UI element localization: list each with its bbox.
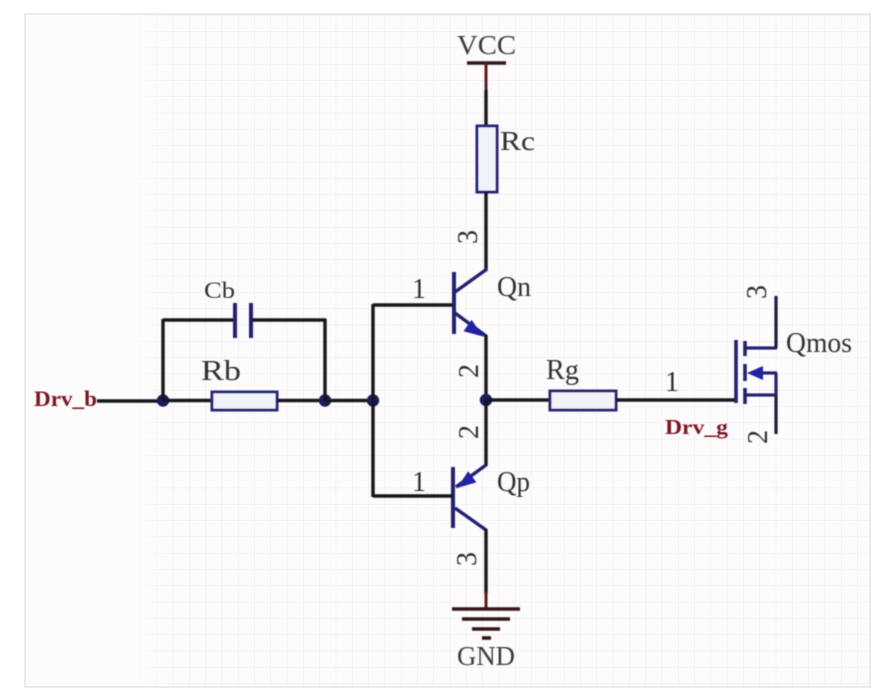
- svg-text:1: 1: [412, 467, 426, 498]
- wire Qp base: [373, 494, 453, 497]
- node D junction (emitters / Rg): [480, 394, 492, 406]
- wire cap branch left vertical: [161, 319, 164, 401]
- transistor Qp (PNP): [453, 465, 486, 530]
- wire Qn base: [373, 303, 453, 306]
- svg-text:Qmos: Qmos: [786, 328, 852, 359]
- wire GND stub (maroon): [485, 592, 488, 610]
- svg-text:2: 2: [743, 430, 774, 444]
- wire Qp collector to GND: [484, 529, 487, 594]
- wire Qn emitter to node: [484, 335, 487, 401]
- wire node to Rg: [486, 398, 551, 401]
- wire node B to node C: [325, 399, 373, 402]
- resistor Rc: [477, 126, 497, 192]
- svg-text:1: 1: [412, 274, 426, 305]
- wire base rail: [371, 304, 374, 497]
- node A junction: [157, 394, 169, 406]
- svg-text:1: 1: [665, 367, 679, 398]
- svg-text:2: 2: [454, 364, 485, 378]
- wire VCC stub (maroon): [485, 63, 488, 92]
- svg-text:3: 3: [742, 285, 773, 299]
- ground GND symbol: [452, 609, 520, 638]
- resistor Rb: [212, 392, 277, 410]
- resistor Rg: [550, 391, 616, 410]
- wire VCC to Rc: [484, 90, 487, 127]
- node B junction: [319, 394, 331, 406]
- wire cap branch right horizontal: [252, 318, 326, 321]
- svg-text:3: 3: [453, 230, 484, 244]
- svg-text:Rc: Rc: [500, 126, 535, 156]
- wire node to Qp emitter: [484, 400, 487, 466]
- svg-text:Qn: Qn: [497, 272, 531, 303]
- svg-text:2: 2: [454, 425, 485, 439]
- wire Rb to node B: [277, 399, 325, 402]
- svg-text:VCC: VCC: [457, 30, 516, 60]
- transistor Qmos (NMOS): [736, 296, 777, 434]
- svg-text:Cb: Cb: [204, 278, 235, 303]
- power symbol VCC bar: [467, 61, 506, 64]
- svg-text:3: 3: [452, 552, 483, 566]
- svg-text:Drv_b: Drv_b: [34, 386, 97, 411]
- capacitor Cb: [235, 303, 251, 338]
- svg-text:Drv_g: Drv_g: [665, 415, 729, 439]
- svg-text:Rg: Rg: [546, 355, 579, 386]
- transistor Qn (NPN): [454, 269, 487, 337]
- wire Rg to gate: [616, 398, 736, 401]
- wire cap branch left horizontal: [163, 318, 234, 321]
- svg-text:Rb: Rb: [201, 356, 241, 387]
- node C junction: [367, 394, 379, 406]
- wire cap branch right vertical: [323, 319, 326, 401]
- svg-text:Qp: Qp: [497, 467, 530, 498]
- svg-text:GND: GND: [457, 641, 515, 671]
- wire Drv_b lead: [97, 399, 163, 402]
- wire node A to Rb: [163, 399, 213, 402]
- wire Rc to Qn collector: [484, 192, 487, 271]
